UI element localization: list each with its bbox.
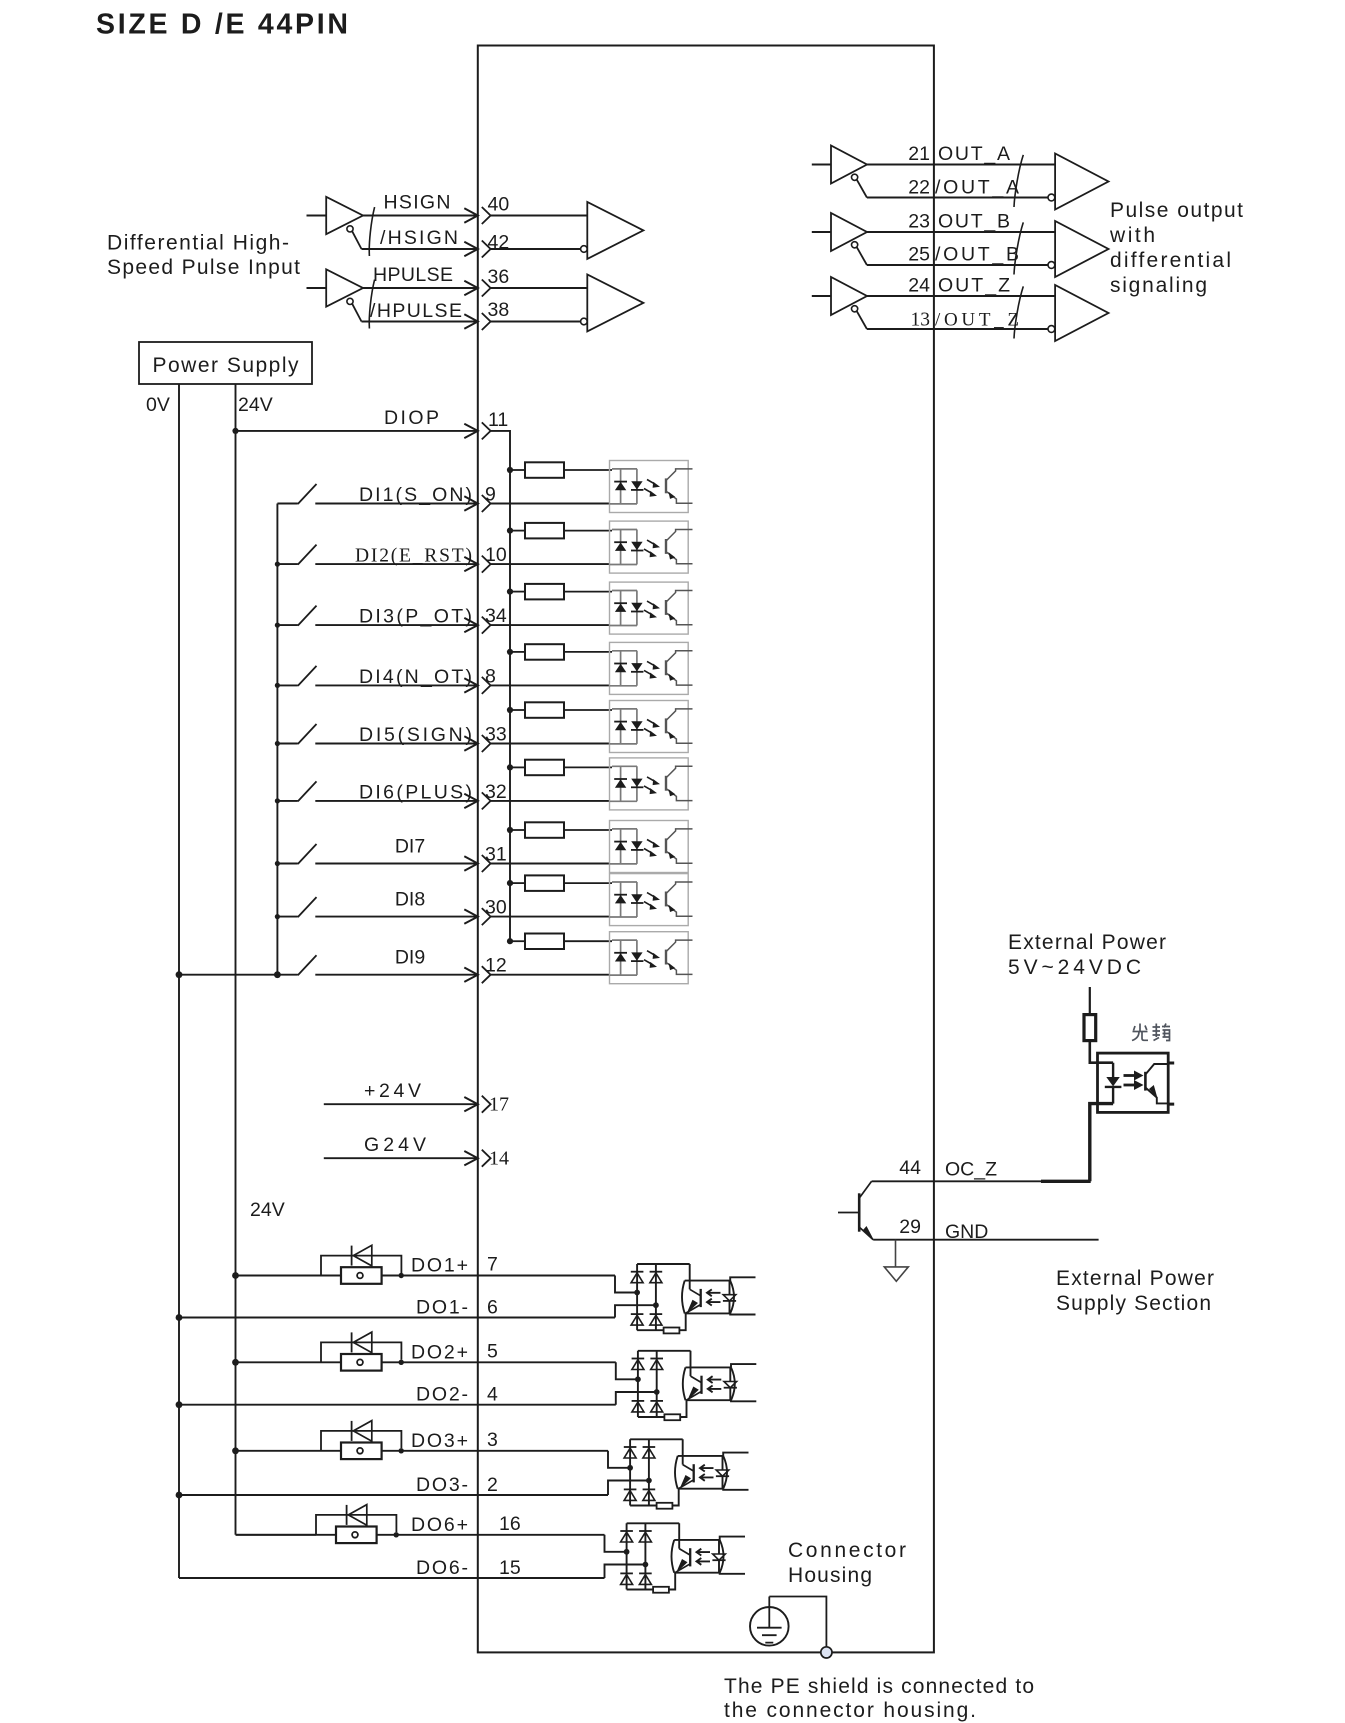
svg-text:GND: GND bbox=[945, 1221, 988, 1243]
switch S8 and input DI8 pin 30 bbox=[277, 874, 692, 926]
svg-text:5: 5 bbox=[487, 1340, 498, 1362]
node switch bus junction DI3 bbox=[275, 623, 280, 628]
wire DO1+ to opto bbox=[401, 1275, 615, 1277]
node 0V-DO2- junction bbox=[176, 1401, 183, 1408]
node switch bus junction DI5 bbox=[275, 741, 280, 746]
svg-text:38: 38 bbox=[488, 299, 510, 321]
svg-text:36: 36 bbox=[488, 266, 510, 288]
svg-text:7: 7 bbox=[487, 1254, 498, 1276]
transistor Q1 base bar bbox=[858, 1193, 861, 1231]
svg-text:/OUT_B: /OUT_B bbox=[935, 244, 1019, 266]
node 0V-DO3- junction bbox=[176, 1492, 183, 1499]
svg-text:44: 44 bbox=[899, 1157, 921, 1179]
PE earth symbol bbox=[750, 1607, 789, 1646]
wire 24V to DO3+ bbox=[236, 1450, 322, 1452]
relay/flyback diode block DO2 bbox=[321, 1332, 404, 1371]
svg-text:3: 3 bbox=[487, 1429, 498, 1451]
svg-text:with: with bbox=[1109, 224, 1155, 247]
wire DO3- jog into bridge bbox=[608, 1481, 649, 1496]
optocoupler U3 phototransistor bbox=[1144, 1072, 1147, 1091]
wire DO2- jog into bridge bbox=[616, 1392, 657, 1405]
svg-text:HPULSE: HPULSE bbox=[373, 264, 453, 286]
wire 0V to DI9 bbox=[179, 974, 277, 976]
svg-text:DI3(P_OT): DI3(P_OT) bbox=[359, 606, 472, 628]
switch S3 and input DI3(P_OT) pin 34 bbox=[277, 582, 692, 634]
svg-text:5V~24VDC: 5V~24VDC bbox=[1008, 956, 1141, 979]
optocoupler output block DO6 bbox=[605, 1523, 746, 1592]
wire 0V to DO1- bbox=[179, 1317, 615, 1319]
svg-text:DI4(N_OT): DI4(N_OT) bbox=[359, 666, 472, 688]
svg-text:15: 15 bbox=[499, 1557, 521, 1579]
svg-text:Pulse output: Pulse output bbox=[1110, 199, 1243, 222]
svg-text:14: 14 bbox=[489, 1148, 509, 1170]
node switchbus-DI9 junction bbox=[274, 971, 281, 978]
switch S7 and input DI7 pin 31 bbox=[277, 821, 692, 873]
svg-text:32: 32 bbox=[485, 781, 507, 803]
relay/flyback diode block DO6 bbox=[316, 1505, 399, 1544]
switch S4 and input DI4(N_OT) pin 8 bbox=[277, 642, 692, 694]
svg-text:OUT_A: OUT_A bbox=[938, 143, 1010, 165]
svg-text:Housing: Housing bbox=[788, 1564, 872, 1587]
wire DO3+ to opto bbox=[401, 1450, 608, 1452]
svg-text:OUT_Z: OUT_Z bbox=[938, 275, 1010, 297]
svg-text:Differential High-: Differential High- bbox=[107, 231, 289, 254]
svg-text:the connector housing.: the connector housing. bbox=[724, 1699, 976, 1722]
line driver OUT_B pair bbox=[812, 213, 1109, 277]
node 24V-DIOP junction bbox=[232, 428, 238, 434]
svg-text:Supply Section: Supply Section bbox=[1056, 1292, 1211, 1315]
wire DIOP internal bus bbox=[491, 431, 510, 943]
pin symbol 17 bbox=[464, 1096, 490, 1113]
node PE on housing bbox=[821, 1647, 832, 1658]
svg-text:DI9: DI9 bbox=[395, 947, 425, 969]
svg-text:The PE shield is connected to: The PE shield is connected to bbox=[724, 1675, 1034, 1698]
optocoupler U3 box bbox=[1098, 1053, 1169, 1112]
svg-text:13: 13 bbox=[911, 310, 931, 331]
transistor Q1 emitter bbox=[860, 1228, 874, 1240]
optocoupler output block DO1 bbox=[615, 1264, 756, 1333]
node switch bus junction DI6 bbox=[275, 798, 280, 803]
label guang-ou (CJK) bbox=[1132, 1024, 1170, 1041]
buffer U1 HSIGN pair bbox=[307, 197, 644, 259]
switch S6 and input DI6(PLUS) pin 32 bbox=[277, 758, 692, 810]
optocoupler output block DO3 bbox=[608, 1439, 749, 1508]
svg-text:DO2+: DO2+ bbox=[411, 1341, 468, 1363]
wire opto to OC_Z (thick) bbox=[1090, 1104, 1113, 1182]
node 24V-DO1+ junction bbox=[232, 1272, 239, 1279]
svg-text:2: 2 bbox=[487, 1474, 498, 1496]
svg-text:16: 16 bbox=[499, 1513, 521, 1535]
relay/flyback diode block DO3 bbox=[321, 1421, 404, 1460]
svg-text:34: 34 bbox=[485, 605, 507, 627]
wire external power feed bbox=[1089, 987, 1091, 1015]
svg-text:DI1(S_ON): DI1(S_ON) bbox=[359, 484, 472, 506]
svg-text:24V: 24V bbox=[250, 1199, 285, 1221]
svg-text:OUT_B: OUT_B bbox=[938, 211, 1010, 233]
svg-text:25: 25 bbox=[908, 244, 930, 266]
wire OC_Z bbox=[872, 1180, 1041, 1182]
svg-text:11: 11 bbox=[488, 409, 508, 431]
power supply box bbox=[139, 342, 312, 384]
pin symbol 14 bbox=[464, 1150, 490, 1167]
wire G24V bbox=[324, 1157, 478, 1159]
node switch bus junction DI4 bbox=[275, 683, 280, 688]
wire DO6- jog into bridge bbox=[605, 1565, 646, 1579]
svg-text:24V: 24V bbox=[238, 394, 273, 416]
svg-text:4: 4 bbox=[487, 1384, 498, 1406]
wire 24V bus corner to DO6+ bbox=[236, 1534, 317, 1536]
line driver OUT_A pair bbox=[812, 146, 1109, 210]
svg-text:DO6+: DO6+ bbox=[411, 1514, 468, 1536]
svg-text:signaling: signaling bbox=[1110, 274, 1207, 297]
buffer U2 HPULSE pair bbox=[307, 269, 644, 331]
wire DO6+ to opto bbox=[396, 1534, 604, 1536]
svg-text:29: 29 bbox=[899, 1216, 921, 1238]
switch S9 and input DI9 pin 12 bbox=[277, 932, 692, 984]
switch bus vertical bbox=[276, 504, 278, 975]
line driver OUT_Z pair bbox=[812, 277, 1109, 341]
svg-text:40: 40 bbox=[488, 194, 510, 216]
optocoupler U3 light arrows bbox=[1124, 1074, 1137, 1077]
svg-text:0V: 0V bbox=[146, 394, 170, 416]
svg-text:22: 22 bbox=[908, 177, 930, 199]
node switch bus junction DI7 bbox=[275, 861, 280, 866]
svg-text:/HSIGN: /HSIGN bbox=[380, 227, 458, 249]
wire 0V to DO2- bbox=[179, 1404, 616, 1406]
svg-text:OC_Z: OC_Z bbox=[945, 1159, 997, 1181]
switch S5 and input DI5(SIGN) pin 33 bbox=[277, 701, 692, 753]
svg-text:24: 24 bbox=[908, 275, 930, 297]
svg-text:DI7: DI7 bbox=[395, 836, 425, 858]
svg-text:31: 31 bbox=[485, 844, 507, 866]
wire PE link bbox=[769, 1597, 826, 1647]
svg-text:8: 8 bbox=[485, 665, 496, 687]
connector box outline bbox=[478, 46, 934, 1653]
svg-text:DIOP: DIOP bbox=[384, 407, 439, 429]
switch S2 and input DI2(E_RST) pin 10 bbox=[277, 521, 692, 573]
svg-text:33: 33 bbox=[485, 724, 507, 746]
svg-text:DO1+: DO1+ bbox=[411, 1255, 468, 1277]
svg-text:9: 9 bbox=[485, 484, 496, 506]
node 0V-DI9 junction bbox=[176, 971, 183, 978]
wire 24V to DO2+ bbox=[236, 1361, 322, 1363]
pin 11 bbox=[464, 422, 490, 439]
svg-text:DI2(E_RST): DI2(E_RST) bbox=[355, 546, 472, 567]
wire resistor to opto bbox=[1090, 1041, 1113, 1063]
svg-text:23: 23 bbox=[908, 211, 930, 233]
svg-text:DI5(SIGN): DI5(SIGN) bbox=[359, 724, 472, 746]
switch S1 and input DI1(S_ON) pin 9 bbox=[277, 461, 692, 513]
wire +24V bbox=[324, 1103, 478, 1105]
transistor Q1 base stub bbox=[838, 1212, 859, 1214]
optocoupler U3 pin stubs bbox=[1168, 1063, 1174, 1104]
optocoupler output block DO2 bbox=[616, 1351, 757, 1420]
wire 0V to DO3- bbox=[179, 1494, 608, 1496]
svg-text:/HPULSE: /HPULSE bbox=[370, 300, 462, 322]
relay/flyback diode block DO1 bbox=[321, 1245, 404, 1284]
resistor R ext bbox=[1084, 1015, 1096, 1041]
node 24V-DO2+ junction bbox=[232, 1359, 239, 1366]
svg-text:6: 6 bbox=[487, 1297, 498, 1319]
node switch bus junction DI2 bbox=[275, 562, 280, 567]
svg-text:10: 10 bbox=[485, 544, 507, 566]
svg-text:21: 21 bbox=[908, 143, 930, 165]
svg-text:DO3+: DO3+ bbox=[411, 1430, 468, 1452]
svg-text:SIZE D /E 44PIN: SIZE D /E 44PIN bbox=[96, 9, 348, 41]
transistor Q1 collector bbox=[860, 1181, 872, 1197]
node switch bus junction DI8 bbox=[275, 914, 280, 919]
svg-text:differential: differential bbox=[1110, 249, 1231, 272]
svg-text:42: 42 bbox=[488, 232, 510, 254]
wire 24V vertical bus bbox=[235, 384, 237, 1535]
node 24V-DO3+ junction bbox=[232, 1447, 239, 1454]
svg-text:DI6(PLUS): DI6(PLUS) bbox=[359, 781, 472, 803]
optocoupler U3 LED bbox=[1112, 1063, 1114, 1104]
node 0V-DO1- junction bbox=[176, 1314, 183, 1321]
svg-text:Speed Pulse Input: Speed Pulse Input bbox=[107, 256, 300, 279]
svg-text:30: 30 bbox=[485, 897, 507, 919]
svg-text:HSIGN: HSIGN bbox=[384, 192, 451, 214]
svg-text:External Power: External Power bbox=[1008, 931, 1166, 954]
ground symbol bbox=[895, 1240, 897, 1267]
wire 0V to DO6- bbox=[179, 1577, 605, 1579]
svg-text:/OUT_A: /OUT_A bbox=[935, 177, 1019, 199]
wire DIOP bbox=[236, 430, 478, 432]
wire DO2+ to opto bbox=[401, 1361, 616, 1363]
wire 0V vertical bus bbox=[178, 384, 180, 1578]
wire DO1- jog into bridge bbox=[615, 1305, 656, 1317]
svg-text:External Power: External Power bbox=[1056, 1267, 1214, 1290]
svg-text:12: 12 bbox=[485, 955, 507, 977]
svg-text:17: 17 bbox=[489, 1094, 509, 1116]
svg-text:DI8: DI8 bbox=[395, 889, 425, 911]
wire GND bbox=[873, 1239, 1098, 1241]
wire 24V to DO6+ bbox=[236, 1534, 317, 1536]
wire 24V to DO1+ bbox=[236, 1275, 322, 1277]
